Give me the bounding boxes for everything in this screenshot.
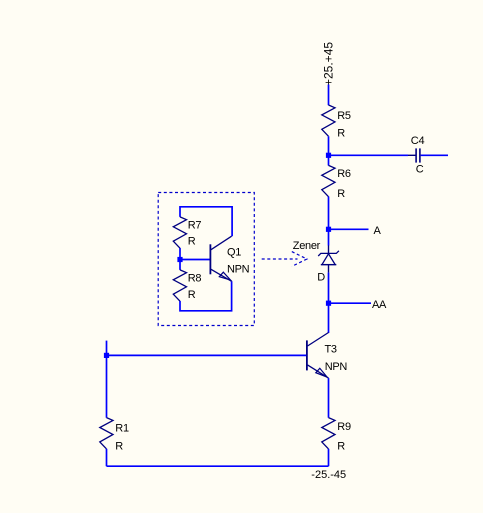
wire R1 bottom	[106, 449, 108, 466]
node A wire	[329, 228, 369, 230]
transistor Q1 collector	[211, 236, 232, 250]
junction below R5	[326, 153, 331, 158]
transistor T3 emitter arrow	[316, 368, 327, 377]
wire right of C4	[421, 154, 448, 156]
svg-text:Zener: Zener	[293, 240, 321, 252]
transistor T3 base bar	[306, 340, 308, 370]
resistor R9	[322, 418, 335, 449]
dashed pointer arrow shaft	[262, 258, 298, 260]
wire	[328, 273, 330, 333]
svg-text:Q1: Q1	[227, 246, 241, 258]
capacitor C4 plates	[416, 148, 420, 162]
svg-text:NPN: NPN	[325, 361, 348, 373]
svg-text:C: C	[416, 163, 424, 175]
resistor R5	[322, 105, 335, 136]
zener diode D cathode bar with hooks	[318, 251, 339, 256]
wire	[328, 136, 330, 165]
svg-text:R7: R7	[188, 220, 202, 232]
svg-text:+25.+45: +25.+45	[321, 42, 335, 86]
wire stub above left junction	[106, 341, 108, 356]
wire to R1	[106, 355, 108, 417]
resistor R1	[100, 418, 113, 449]
svg-text:-25.-45: -25.-45	[311, 469, 346, 481]
wire Q1 base	[180, 259, 210, 261]
resistor R8	[173, 270, 186, 301]
capacitor C4 left pin	[408, 154, 416, 156]
zener diode D top pin	[328, 245, 330, 253]
resistor R6	[322, 165, 335, 196]
wire	[328, 197, 330, 246]
wire T3 emitter to R9	[328, 378, 330, 418]
junction node AA	[326, 301, 331, 306]
svg-text:A: A	[374, 225, 382, 237]
wire to capacitor	[329, 154, 409, 156]
svg-text:R9: R9	[337, 421, 351, 433]
junction left	[104, 353, 109, 358]
svg-text:R: R	[115, 441, 123, 453]
svg-text:C4: C4	[411, 135, 425, 147]
resistor R7	[173, 217, 186, 248]
junction at R7/R8	[177, 257, 182, 262]
transistor T3 emitter diagonal	[308, 365, 329, 378]
svg-text:R1: R1	[115, 423, 129, 435]
junction node A	[326, 227, 331, 232]
svg-text:NPN: NPN	[227, 264, 250, 276]
wire	[179, 248, 181, 270]
dashed pointer arrow head	[292, 252, 307, 267]
transistor T3 collector diagonal	[308, 333, 329, 347]
transistor Q1 emitter	[211, 269, 232, 281]
dashed selection box	[158, 193, 254, 326]
svg-text:R: R	[188, 235, 196, 247]
wire box bottom	[180, 281, 232, 311]
svg-text:R5: R5	[337, 110, 351, 122]
svg-text:R6: R6	[337, 168, 351, 180]
svg-text:R: R	[337, 188, 345, 200]
wire T3 collector	[328, 332, 330, 335]
svg-text:R: R	[188, 289, 196, 301]
svg-text:R: R	[337, 440, 345, 452]
svg-text:D: D	[317, 272, 325, 284]
zener diode D anode bar	[321, 264, 337, 266]
zener diode D triangle	[322, 254, 335, 265]
wire	[328, 85, 330, 106]
transistor Q1 base bar	[209, 244, 211, 274]
wire T3 base	[107, 354, 307, 356]
wire R9 bottom	[328, 449, 330, 466]
svg-text:R: R	[337, 128, 345, 140]
bottom rail wire	[107, 465, 329, 467]
svg-text:T3: T3	[325, 343, 337, 355]
node AA wire	[329, 302, 372, 304]
wire box top	[180, 207, 232, 236]
zener diode D bottom pin	[328, 265, 330, 273]
svg-text:R8: R8	[188, 273, 202, 285]
svg-text:AA: AA	[372, 299, 387, 311]
transistor Q1 emitter arrow	[219, 272, 230, 280]
